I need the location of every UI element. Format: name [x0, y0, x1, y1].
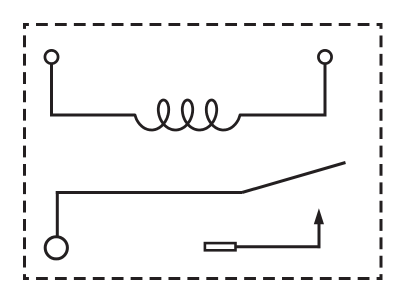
arrowhead (actuation direction)	[314, 208, 324, 224]
switch blade (open contact)	[242, 163, 346, 193]
relay enclosure (dashed boundary)	[23, 23, 383, 280]
wire: common terminal lead up	[56, 191, 59, 236]
terminal circle (coil, top-left)	[45, 50, 58, 63]
wire: actuator link riser	[318, 223, 321, 249]
wire: top-left terminal lead down	[50, 64, 53, 114]
wire: left horizontal to coil	[50, 114, 135, 117]
actuator block (small rectangle)	[205, 243, 236, 250]
wire: right horizontal from coil	[240, 114, 327, 117]
wire: actuator link horizontal	[236, 245, 320, 248]
terminal circle (coil, top-right)	[318, 50, 331, 63]
terminal circle (common, bottom-left)	[45, 237, 67, 259]
wire: switch pole horizontal	[56, 191, 242, 194]
wire: top-right terminal lead up	[324, 64, 327, 117]
relay coil (inductor)	[135, 100, 240, 130]
